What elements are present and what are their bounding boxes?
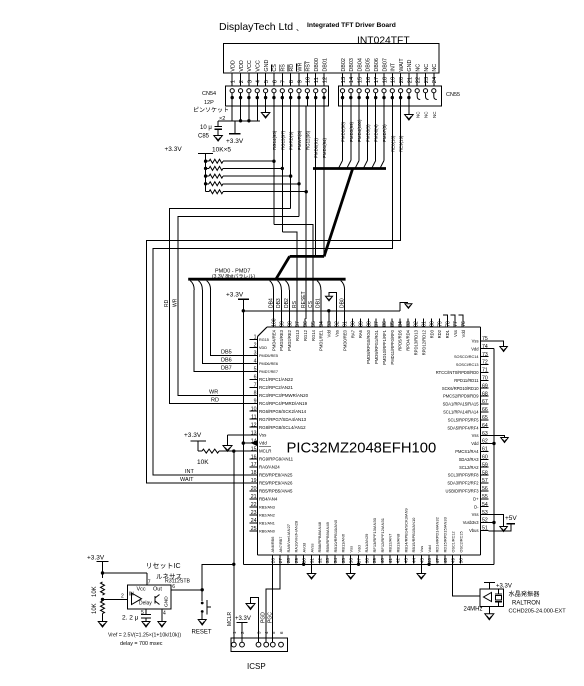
- svg-text:RG7/RPG7/SDA4/AN13: RG7/RPG7/SDA4/AN13: [259, 417, 307, 422]
- svg-text:84: 84: [398, 321, 404, 327]
- svg-text:SCL1/RPA14/RA14: SCL1/RPA14/RA14: [443, 410, 479, 415]
- overline on MCLR pin15 label: [259, 445, 271, 447]
- svg-text:25: 25: [251, 526, 257, 532]
- svg-text:RC1/RPC1/AN22: RC1/RPC1/AN22: [259, 377, 293, 382]
- pull-up resistor 10K row 2: [206, 167, 209, 169]
- svg-text:2. 2 μ: 2. 2 μ: [122, 615, 139, 622]
- svg-text:GND: GND: [407, 60, 413, 72]
- svg-text:C85: C85: [198, 134, 210, 140]
- reset IC comparator symbol: [132, 593, 142, 605]
- svg-text:10: 10: [251, 406, 257, 412]
- svg-text:NC: NC: [424, 111, 429, 118]
- svg-text:26: 26: [270, 558, 276, 564]
- svg-text:DB06: DB06: [374, 58, 380, 72]
- svg-text:RST: RST: [306, 60, 312, 71]
- svg-text:7: 7: [148, 580, 151, 586]
- svg-text:PMD6/RE6: PMD6/RE6: [259, 362, 278, 366]
- svg-text:WAIT: WAIT: [180, 477, 194, 483]
- svg-text:SDA1/RPA15/RA15: SDA1/RPA15/RA15: [443, 402, 480, 407]
- svg-text:32: 32: [317, 558, 323, 564]
- svg-text:87: 87: [374, 321, 380, 327]
- svg-text:RPD13/RD13: RPD13/RD13: [414, 329, 419, 355]
- svg-text:47: 47: [435, 558, 441, 564]
- svg-text:+3.3V: +3.3V: [226, 138, 244, 145]
- svg-text:98: 98: [287, 321, 293, 327]
- svg-text:PMD0/RE0: PMD0/RE0: [342, 329, 347, 351]
- svg-text:SOSCI/RC13: SOSCI/RC13: [456, 363, 479, 367]
- ICSP pin circles: [231, 642, 236, 647]
- svg-text:CN54: CN54: [202, 91, 216, 97]
- svg-text:Vss: Vss: [472, 433, 479, 438]
- svg-text:RPD4/RD4: RPD4/RD4: [406, 329, 411, 350]
- svg-text:RPD12/RD12: RPD12/RD12: [421, 329, 426, 355]
- connector CN55 NC pins 22-24: [415, 89, 419, 93]
- svg-text:SDA2/RA3: SDA2/RA3: [459, 457, 480, 462]
- Vdd feed tap with arrow at chip pin14: [242, 441, 245, 444]
- svg-text:23: 23: [251, 510, 257, 516]
- +3.3V supply for oscillator: [484, 582, 495, 584]
- svg-text:76: 76: [461, 321, 467, 327]
- svg-text:Integrated TFT Driver Board: Integrated TFT Driver Board: [307, 22, 396, 29]
- ground at chip pin53 Vss: [489, 515, 504, 527]
- svg-text:19: 19: [391, 77, 397, 83]
- svg-text:+3.3V: +3.3V: [165, 146, 183, 153]
- svg-text:99: 99: [279, 321, 285, 327]
- svg-text:24MHz: 24MHz: [464, 607, 483, 613]
- svg-text:86: 86: [382, 321, 388, 327]
- no-connect hook at chip pin76: [459, 315, 464, 319]
- svg-text:66: 66: [482, 407, 488, 413]
- svg-text:RPD5/RD5: RPD5/RD5: [398, 329, 403, 350]
- svg-text:VDD: VDD: [259, 346, 267, 350]
- wire DB01 from CN54 pin12 (net PMD1): [323, 106, 325, 256]
- svg-text:CN55: CN55: [446, 92, 460, 98]
- oscillator buffer symbol: [484, 593, 492, 602]
- capacitor C85 10u: [217, 121, 219, 127]
- svg-text:VDD: VDD: [231, 60, 237, 71]
- svg-text:INT024TFT: INT024TFT: [357, 36, 410, 47]
- wire reset loop to push button: [202, 564, 234, 590]
- wire DB5 from bus to chip pin3: [207, 281, 211, 290]
- svg-text:RESET: RESET: [192, 630, 212, 636]
- svg-text:NC: NC: [424, 64, 430, 72]
- resistor 10K to MCLR pin15: [197, 441, 199, 451]
- svg-text:39: 39: [372, 558, 378, 564]
- svg-text:8: 8: [254, 390, 257, 396]
- no-connect hook at chip pin77: [451, 315, 456, 319]
- svg-text:RF13/RPF13/AN30: RF13/RPF13/AN30: [372, 517, 377, 552]
- svg-text:7: 7: [254, 383, 257, 389]
- svg-text:WAIT: WAIT: [399, 58, 405, 72]
- svg-text:88: 88: [366, 321, 372, 327]
- svg-text:NC: NC: [432, 64, 438, 72]
- svg-text:水晶発振器: 水晶発振器: [509, 590, 541, 598]
- PMD bus diagonal lower: [276, 256, 290, 279]
- svg-text:RA1/AN29: RA1/AN29: [364, 533, 369, 553]
- pull-up resistor 10K row 3: [206, 175, 209, 177]
- svg-text:72: 72: [482, 360, 488, 366]
- svg-text:36: 36: [349, 558, 355, 564]
- svg-text:57: 57: [482, 478, 488, 484]
- svg-text:PMRD(9): PMRD(9): [289, 131, 294, 150]
- svg-text:69: 69: [482, 383, 488, 389]
- svg-text:4: 4: [254, 359, 257, 365]
- svg-text:4: 4: [163, 611, 166, 617]
- svg-text:PMD9/RPG1/RG1: PMD9/RPG1/RG1: [374, 329, 379, 364]
- svg-text:5: 5: [254, 367, 257, 373]
- svg-text:3: 3: [247, 80, 253, 83]
- svg-text:46: 46: [427, 558, 433, 564]
- svg-text:DB2: DB2: [284, 298, 290, 308]
- svg-text:77: 77: [453, 321, 459, 327]
- PMD bus diagonal upper: [324, 169, 353, 257]
- svg-text:RG14: RG14: [311, 329, 316, 341]
- ground at chip pin13 Vss: [228, 434, 258, 436]
- svg-text:INT: INT: [391, 62, 397, 71]
- svg-text:AVss: AVss: [309, 543, 314, 552]
- svg-text:DB3: DB3: [276, 298, 282, 308]
- PMD bus upper thick segment: [313, 167, 386, 170]
- svg-text:RB10/RPB10/AN5: RB10/RPB10/AN5: [333, 519, 338, 552]
- svg-text:18: 18: [251, 470, 257, 476]
- svg-text:Vdd: Vdd: [427, 545, 432, 552]
- ground below C85: [214, 136, 223, 142]
- svg-text:DB00: DB00: [314, 58, 320, 72]
- ground below oscillator: [488, 607, 490, 614]
- svg-text:GND: GND: [164, 596, 170, 607]
- svg-text:9: 9: [297, 80, 303, 83]
- connector CN54 outline: [226, 86, 329, 106]
- svg-text:2: 2: [254, 343, 257, 349]
- push button RESET: [201, 590, 203, 601]
- svg-text:NC: NC: [415, 111, 420, 118]
- svg-text:22: 22: [416, 77, 422, 83]
- svg-text:19: 19: [251, 478, 257, 484]
- wire WAIT from CN55 pin20: [147, 106, 401, 483]
- svg-text:Vss: Vss: [472, 512, 479, 517]
- svg-text:10 μ: 10 μ: [200, 125, 212, 131]
- svg-text:52: 52: [482, 518, 488, 524]
- svg-text:79: 79: [437, 321, 443, 327]
- svg-text:PGC: PGC: [267, 612, 273, 623]
- svg-text:DB01: DB01: [322, 58, 328, 72]
- svg-text:ピンソケット: ピンソケット: [193, 107, 229, 114]
- svg-text:OSC1/RC12: OSC1/RC12: [451, 531, 455, 552]
- svg-text:97: 97: [295, 321, 301, 327]
- wire DB6 from bus to chip pin4: [198, 281, 202, 290]
- svg-text:RB3/AN3: RB3/AN3: [259, 505, 275, 509]
- svg-text:リセットIC: リセットIC: [146, 562, 181, 570]
- svg-text:28: 28: [286, 558, 292, 564]
- svg-text:83: 83: [406, 321, 412, 327]
- svg-text:90: 90: [351, 321, 357, 327]
- svg-text:1: 1: [231, 80, 237, 83]
- no-connect hook at chip pin78: [443, 315, 448, 319]
- wire to reset IC IN pin2: [103, 598, 128, 600]
- svg-text:+3.3V: +3.3V: [226, 292, 244, 299]
- svg-text:MCLR: MCLR: [227, 611, 233, 626]
- pull-up resistor 10K row 4: [206, 183, 209, 185]
- svg-text:73: 73: [482, 352, 488, 358]
- svg-text:42: 42: [396, 558, 402, 564]
- wire PGC from chip pin26 to ICSP pin5: [271, 555, 273, 642]
- wire RD from CN54 pin8 (net PMRD): [290, 106, 292, 208]
- PMD bus lower thick segment: [188, 278, 345, 281]
- svg-text:RB1/AN1: RB1/AN1: [259, 521, 275, 525]
- wire DB3 from bus to chip pin99: [278, 281, 282, 290]
- chip left pin stubs numbers labels: [250, 339, 258, 341]
- svg-text:74: 74: [482, 344, 488, 350]
- svg-text:SCL5/RPF5/RF5: SCL5/RPF5/RF5: [448, 417, 479, 422]
- svg-text:10K×5: 10K×5: [212, 147, 231, 154]
- svg-text:67: 67: [482, 399, 488, 405]
- PMD bus middle thick segment: [290, 255, 325, 258]
- svg-text:RB8/RPB8/AN48: RB8/RPB8/AN48: [317, 521, 322, 552]
- svg-text:41: 41: [388, 558, 394, 564]
- ground at chip pin75 Vss: [489, 341, 504, 347]
- svg-text:11: 11: [314, 77, 320, 83]
- svg-text:PMD1(94): PMD1(94): [322, 137, 327, 158]
- svg-text:WR: WR: [297, 63, 303, 72]
- crystal oscillator X1 outline: [480, 589, 504, 607]
- svg-text:GND: GND: [264, 60, 270, 72]
- rail junction at chip pin30 Vdd: [303, 555, 305, 564]
- svg-text:PMD1/RE1: PMD1/RE1: [319, 329, 324, 351]
- svg-text:20: 20: [251, 486, 257, 492]
- wire DB2 from bus to chip pin98: [285, 281, 289, 290]
- svg-text:31: 31: [310, 558, 316, 564]
- svg-text:RB0/AN0: RB0/AN0: [259, 529, 275, 533]
- svg-text:DB4: DB4: [268, 298, 274, 308]
- svg-text:RB2/AN2: RB2/AN2: [259, 513, 275, 517]
- svg-text:RC4/RPC4/PMRD/AN19: RC4/RPC4/PMRD/AN19: [259, 401, 308, 406]
- svg-text:Out: Out: [153, 587, 162, 593]
- svg-text:PMD10/RPF1/RF1: PMD10/RPF1/RF1: [382, 329, 387, 365]
- svg-text:24: 24: [432, 76, 438, 83]
- svg-text:12: 12: [251, 422, 257, 428]
- svg-text:Vss: Vss: [453, 330, 458, 337]
- svg-text:49: 49: [451, 558, 457, 564]
- svg-text:SDA5/RPF4/RF4: SDA5/RPF4/RF4: [447, 425, 479, 430]
- svg-text:20: 20: [399, 77, 405, 83]
- svg-text:68: 68: [482, 391, 488, 397]
- svg-text:DB7: DB7: [221, 365, 232, 371]
- svg-text:PMD4/RE4: PMD4/RE4: [271, 329, 276, 351]
- svg-text:11: 11: [251, 414, 256, 420]
- svg-text:21: 21: [251, 494, 257, 500]
- TFT driver board INT024TFT outline: [224, 44, 440, 74]
- svg-text:50: 50: [458, 558, 464, 564]
- svg-text:80: 80: [430, 321, 436, 327]
- wire DB07 from CN55 pin18 to PMD bus: [383, 106, 385, 161]
- ground at CN54 pin5 GND: [265, 106, 267, 113]
- wire DB02 from CN55 pin13 to PMD bus: [342, 106, 344, 161]
- svg-text:PMD3/RE3: PMD3/RE3: [279, 329, 284, 351]
- svg-text:AN6/RB6: AN6/RB6: [271, 537, 275, 553]
- wire CS from CN54 pin6 (net RG14): [273, 106, 275, 224]
- svg-text:5: 5: [264, 80, 270, 83]
- svg-text:PMD11/RPF0/RF0: PMD11/RPF0/RF0: [390, 329, 395, 364]
- svg-text:95: 95: [311, 321, 317, 327]
- svg-text:65: 65: [482, 415, 488, 421]
- svg-text:USBID/RPF3/RF3: USBID/RPF3/RF3: [446, 489, 480, 494]
- svg-text:63: 63: [482, 431, 488, 437]
- svg-text:14: 14: [349, 76, 355, 83]
- svg-text:SDA3/RPF2/RF2: SDA3/RPF2/RF2: [447, 481, 479, 486]
- ground at chip pin63 SDA5 (Vss): [489, 436, 505, 438]
- reset IC U2 R3112 outline: [127, 585, 171, 609]
- svg-text:PMD6(4): PMD6(4): [374, 124, 379, 142]
- svg-text:+3.3V: +3.3V: [235, 616, 251, 622]
- svg-text:12P: 12P: [204, 100, 214, 106]
- svg-text:R3112STB: R3112STB: [165, 579, 191, 585]
- svg-text:Vss: Vss: [472, 338, 479, 343]
- svg-text:VCC: VCC: [256, 60, 262, 71]
- svg-text:35: 35: [341, 558, 347, 564]
- svg-text:60: 60: [482, 455, 488, 461]
- wire DB03 from CN55 pin14 to PMD bus: [350, 106, 352, 161]
- svg-text:RD: RD: [289, 64, 295, 72]
- svg-text:CS: CS: [272, 64, 278, 72]
- svg-text:PIC32MZ2048EFH100: PIC32MZ2048EFH100: [287, 440, 437, 456]
- wire DB4 from bus to chip pin100: [270, 281, 274, 290]
- svg-text:RS: RS: [292, 300, 298, 308]
- svg-text:DisplayTech Ltd: DisplayTech Ltd: [219, 21, 293, 33]
- svg-text:RD14/RPD14/AN32: RD14/RPD14/AN32: [435, 516, 440, 552]
- svg-text:DB02: DB02: [341, 58, 347, 72]
- ground at chip pin31 Vss: [311, 555, 313, 574]
- svg-text:RD1: RD1: [445, 329, 450, 338]
- ground at ICSP pin3: [251, 597, 259, 642]
- svg-text:PMD7(5): PMD7(5): [382, 124, 387, 142]
- pull-up resistor 10K row 1: [206, 160, 209, 162]
- svg-text:AN7/RB7: AN7/RB7: [279, 537, 283, 553]
- svg-text:16: 16: [251, 454, 257, 460]
- crystal element symbol: [498, 589, 500, 594]
- wire DB06 from CN55 pin17 to PMD bus: [375, 106, 377, 161]
- svg-text:93: 93: [327, 321, 333, 327]
- svg-text:71: 71: [482, 368, 488, 374]
- svg-text:PMCS2/RPD9/RD9: PMCS2/RPD9/RD9: [443, 394, 479, 399]
- svg-text:SCL3/RPF8/RF8: SCL3/RPF8/RF8: [448, 473, 479, 478]
- svg-text:RB12/AN7: RB12/AN7: [388, 533, 393, 553]
- svg-text:40: 40: [380, 558, 386, 564]
- resistor divider 10K lower: [101, 601, 105, 614]
- chip top pin stubs and numbers: [462, 319, 464, 328]
- ground at CN55 pin21 GND: [408, 106, 410, 115]
- reset IC output wire: [171, 589, 202, 591]
- svg-text:SCK6/RPD10/RD10: SCK6/RPD10/RD10: [442, 386, 479, 391]
- svg-text:6: 6: [272, 80, 278, 83]
- svg-text:Delay: Delay: [139, 601, 152, 607]
- svg-text:RESET: RESET: [301, 291, 307, 308]
- svg-text:RA6: RA6: [358, 329, 363, 338]
- svg-text:3: 3: [254, 351, 257, 357]
- svg-text:59: 59: [482, 462, 488, 468]
- svg-text:PMD2/RE2: PMD2/RE2: [287, 329, 292, 351]
- svg-text:18: 18: [382, 77, 388, 83]
- svg-text:RB11/AN6: RB11/AN6: [341, 533, 346, 552]
- wire RS from CN54 pin7 (net RG13): [281, 106, 283, 232]
- svg-text:RG15: RG15: [259, 338, 269, 342]
- wire DB1 from bus to chip pin94: [317, 281, 321, 290]
- svg-text:RG6/RPG6/SCK2/AN14: RG6/RPG6/SCK2/AN14: [259, 409, 307, 414]
- svg-text:PMD7/RE7: PMD7/RE7: [259, 370, 278, 374]
- svg-text:SCL2/RA2: SCL2/RA2: [459, 465, 479, 470]
- svg-text:70: 70: [482, 376, 488, 382]
- svg-text:PMCS1/RA4: PMCS1/RA4: [455, 449, 479, 454]
- junction at pin62 Vdd: [492, 442, 495, 445]
- svg-text:RC2/RPC2/AN21: RC2/RPC2/AN21: [259, 385, 293, 390]
- svg-text:RG8/RPG8/SCL4/AN12: RG8/RPG8/SCL4/AN12: [259, 425, 306, 430]
- +3.3V supply at CN54 rail: [234, 121, 236, 134]
- svg-text:PMD2(98): PMD2(98): [341, 121, 346, 142]
- junction at pin52 Vusb3v3: [492, 521, 495, 524]
- wire DB04 from CN55 pin15 to PMD bus: [358, 106, 360, 161]
- svg-text:RALTRON: RALTRON: [512, 601, 540, 607]
- svg-text:24: 24: [251, 518, 257, 524]
- svg-text:PMD5/RE5: PMD5/RE5: [259, 354, 278, 358]
- pull-up resistor 10K row 5: [206, 191, 209, 193]
- svg-text:48: 48: [443, 558, 449, 564]
- svg-text:10K: 10K: [92, 586, 98, 597]
- wire WR from CN54 pin9 (net PMWR): [298, 106, 300, 216]
- svg-text:17: 17: [251, 462, 257, 468]
- svg-text:Vss: Vss: [259, 433, 267, 438]
- wire Vdd right riser from pin74 to rail: [489, 348, 495, 350]
- svg-text:PMWR(8): PMWR(8): [297, 130, 302, 150]
- svg-text:PMD5(3): PMD5(3): [365, 124, 370, 142]
- svg-text:RD3: RD3: [429, 329, 434, 338]
- svg-text:92: 92: [335, 321, 341, 327]
- wire WR jog to left riser: [178, 216, 299, 395]
- svg-text:Vss: Vss: [349, 546, 354, 553]
- svg-text:ICSP: ICSP: [247, 662, 266, 671]
- svg-text:10: 10: [306, 77, 312, 83]
- wire DB7 from bus to chip pin5: [190, 281, 194, 290]
- svg-text:RF12/RPF12/AN31: RF12/RPF12/AN31: [380, 517, 385, 552]
- svg-text:75: 75: [482, 336, 488, 342]
- ground below divider: [102, 614, 104, 622]
- svg-text:PGD: PGD: [261, 612, 267, 623]
- svg-text:RB14/RPB14/SCK3/AN9: RB14/RPB14/SCK3/AN9: [403, 507, 408, 552]
- svg-text:RD2: RD2: [437, 329, 442, 338]
- svg-text:PMD8/RPG0/RG0: PMD8/RPG0/RG0: [366, 329, 371, 364]
- svg-text:6: 6: [172, 584, 175, 590]
- svg-text:53: 53: [482, 510, 488, 516]
- wire PGD from chip pin27 to ICSP pin4: [266, 555, 280, 642]
- svg-text:Vdd: Vdd: [461, 329, 466, 337]
- svg-text:DB07: DB07: [382, 58, 388, 72]
- svg-text:27: 27: [278, 558, 284, 564]
- svg-text:Vdd: Vdd: [356, 545, 361, 552]
- svg-text:RE9/RPE9/AN26: RE9/RPE9/AN26: [259, 481, 293, 486]
- svg-text:Vdd: Vdd: [327, 329, 332, 337]
- svg-text:RB13/AN8: RB13/AN8: [396, 533, 401, 553]
- svg-text:91: 91: [343, 321, 349, 327]
- svg-text:15: 15: [358, 77, 364, 83]
- svg-text:RG14(95): RG14(95): [272, 130, 277, 150]
- svg-text:34: 34: [333, 558, 339, 564]
- svg-text:DB1: DB1: [316, 298, 322, 308]
- svg-text:Vdd: Vdd: [259, 441, 267, 446]
- capacitor 2.2u on Delay pin5: [145, 609, 147, 614]
- svg-text:INT: INT: [185, 469, 195, 475]
- ground hook at end of Vdd line: [400, 302, 408, 310]
- svg-text:DB04: DB04: [357, 58, 363, 72]
- svg-text:D-: D-: [474, 504, 479, 509]
- svg-text:37: 37: [357, 558, 363, 564]
